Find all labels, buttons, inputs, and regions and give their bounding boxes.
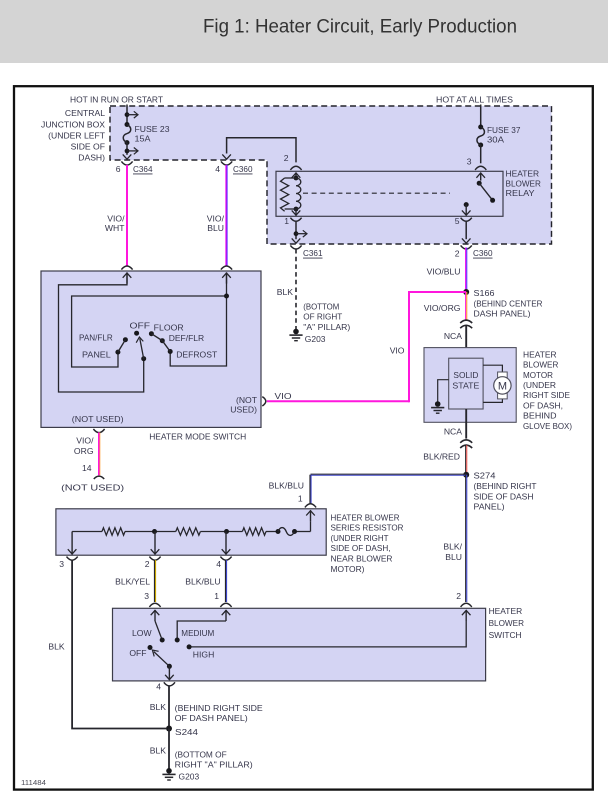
resistor element 2 xyxy=(176,528,201,535)
thermal limiter xyxy=(276,529,281,534)
svg-text:FUSE 37: FUSE 37 xyxy=(487,125,521,135)
svg-text:RIGHT "A" PILLAR): RIGHT "A" PILLAR) xyxy=(175,760,253,770)
svg-text:PANEL): PANEL) xyxy=(474,502,505,512)
svg-text:(BOTTOM: (BOTTOM xyxy=(303,302,339,312)
connector at relay pin 3 xyxy=(475,166,486,170)
wire below fuse 23 xyxy=(126,143,128,155)
ground G203 (right A pillar) xyxy=(293,329,299,335)
svg-text:(UNDER LEFT: (UNDER LEFT xyxy=(48,130,106,140)
relay switch arm xyxy=(479,183,492,200)
svg-text:14: 14 xyxy=(82,463,92,473)
contact MEDIUM xyxy=(175,638,180,643)
blower pin 4 exit arrow xyxy=(168,666,170,680)
svg-text:MEDIUM: MEDIUM xyxy=(181,628,214,638)
blower pin 3 entry arrow to LOW xyxy=(154,610,156,621)
svg-text:HOT AT ALL TIMES: HOT AT ALL TIMES xyxy=(436,95,513,105)
wire BLK/YEL resistor pin 2 to blower pin 3 xyxy=(153,560,155,602)
svg-text:HEATER MODE SWITCH: HEATER MODE SWITCH xyxy=(149,432,246,442)
ground inside motor box xyxy=(438,380,449,402)
wire relay pin1 to C361 xyxy=(295,222,297,240)
splice S274 xyxy=(463,472,469,478)
relay switch common dot pin 3 xyxy=(477,181,482,186)
svg-text:ORG: ORG xyxy=(74,446,94,456)
svg-text:(NOT USED): (NOT USED) xyxy=(72,414,124,424)
relay coil (resistor + inductor in parallel) xyxy=(294,176,299,181)
svg-text:S244: S244 xyxy=(175,727,198,737)
svg-text:HEATER: HEATER xyxy=(489,606,523,616)
blower switch pole arm (points at OFF) xyxy=(167,664,172,669)
relay box (HEATER BLOWER RELAY U1) xyxy=(276,171,503,216)
svg-text:111484: 111484 xyxy=(21,778,46,787)
relay actuation dashed link xyxy=(303,192,450,194)
wire hot-in-run feed into junction box xyxy=(126,105,128,125)
svg-text:C360: C360 xyxy=(473,248,493,258)
wire dashed BLK from C361 to G203 xyxy=(295,249,297,329)
svg-text:VIO: VIO xyxy=(390,345,405,355)
svg-text:SOLID: SOLID xyxy=(453,370,478,380)
svg-text:NCA: NCA xyxy=(444,426,462,436)
header bar xyxy=(0,0,608,63)
svg-text:2: 2 xyxy=(145,559,150,569)
node junction dot with branch arrow (top of fuse 23 feed) xyxy=(125,112,130,117)
wire VIO/ORG stub pin 14 xyxy=(98,432,100,475)
connector at blower pin 3 xyxy=(149,603,160,607)
exit arrow at connector C361 xyxy=(292,238,301,243)
svg-text:HIGH: HIGH xyxy=(193,649,215,659)
heater blower series resistor box R1 xyxy=(56,509,326,555)
svg-text:CENTRAL: CENTRAL xyxy=(65,108,105,118)
svg-text:BLU: BLU xyxy=(445,552,462,562)
wire BLK/BLU from S274 to resistor pin 1 xyxy=(311,473,467,475)
node bus junction dot xyxy=(224,294,229,299)
wire hot-at-all-times feed to fuse 37 xyxy=(480,105,482,128)
svg-text:3: 3 xyxy=(144,591,149,601)
svg-text:VIO/: VIO/ xyxy=(207,214,225,224)
svg-text:BLU: BLU xyxy=(207,223,224,233)
connector at mode switch pin 14 (not used) xyxy=(93,429,104,433)
svg-text:DEFROST: DEFROST xyxy=(176,349,218,359)
svg-text:OF DASH PANEL): OF DASH PANEL) xyxy=(175,713,248,723)
relay switch output contact xyxy=(464,202,469,207)
connector at relay pin 1 xyxy=(290,218,301,222)
connector at blower pin 2 xyxy=(461,603,472,607)
connector at resistor pin 2 xyxy=(149,557,160,561)
wire VIO/BLU from C360 pin4 to heater mode switch xyxy=(225,165,227,266)
svg-text:VIO/BLU: VIO/BLU xyxy=(427,266,461,276)
svg-text:BLK: BLK xyxy=(150,702,167,712)
svg-text:BLK/RED: BLK/RED xyxy=(423,451,460,461)
svg-text:4: 4 xyxy=(156,681,161,691)
svg-text:NCA: NCA xyxy=(444,331,462,341)
wire BLK/RED to splice S274 xyxy=(465,445,467,475)
svg-text:BLK/BLU: BLK/BLU xyxy=(185,577,220,587)
svg-text:NEAR BLOWER: NEAR BLOWER xyxy=(331,554,393,564)
node junction dot xyxy=(224,529,229,534)
connector at relay pin 5 xyxy=(461,218,472,222)
svg-text:RIGHT SIDE: RIGHT SIDE xyxy=(523,390,570,400)
svg-text:30A: 30A xyxy=(487,135,504,145)
wire relay pin5 to C360 pin 2 xyxy=(465,222,467,240)
heater blower motor box M1 xyxy=(424,348,516,423)
inline connector NCA lower xyxy=(460,440,472,443)
wire fuse 37 to relay pin 3 xyxy=(480,145,482,163)
svg-text:BLK/: BLK/ xyxy=(443,541,462,551)
svg-text:BLK: BLK xyxy=(48,641,65,651)
connector at resistor pin 3 xyxy=(67,557,78,561)
mode switch contact bus (inner rectangle) xyxy=(72,296,227,367)
svg-text:HEATER: HEATER xyxy=(523,349,557,359)
svg-text:G203: G203 xyxy=(305,334,326,344)
svg-text:1: 1 xyxy=(298,494,303,504)
svg-text:HOT IN RUN OR START: HOT IN RUN OR START xyxy=(70,94,164,104)
svg-text:MOTOR): MOTOR) xyxy=(331,564,365,574)
exit arrow at connector C364 pin 6 xyxy=(123,154,132,159)
solid state controller box xyxy=(449,358,483,409)
svg-text:4: 4 xyxy=(215,164,220,174)
motor M symbol xyxy=(498,372,508,378)
mode switch left entry arrow and pole feed wire xyxy=(126,273,128,284)
fuse F37 (FUSE 37 30A) xyxy=(478,125,483,130)
resistor element 1 xyxy=(102,528,125,535)
svg-text:BLK: BLK xyxy=(150,746,167,756)
resistor pin 3 exit arrow xyxy=(71,532,73,555)
svg-text:BLOWER: BLOWER xyxy=(506,178,541,188)
resistor element 3 xyxy=(242,528,266,535)
svg-text:PAN/FLR: PAN/FLR xyxy=(79,333,113,343)
svg-text:BLOWER: BLOWER xyxy=(489,618,524,628)
svg-text:SIDE OF DASH: SIDE OF DASH xyxy=(474,491,534,501)
svg-text:SIDE OF DASH,: SIDE OF DASH, xyxy=(331,543,391,553)
central junction box / relay dashed box xyxy=(110,106,552,244)
heater mode switch box SW1 xyxy=(41,271,261,427)
wire VIO/ORG horizontal into S166 xyxy=(408,291,466,293)
svg-text:(BOTTOM OF: (BOTTOM OF xyxy=(175,749,227,759)
blower pin 1 entry arrow to MEDIUM xyxy=(225,610,227,621)
svg-text:S274: S274 xyxy=(474,470,496,480)
svg-text:PANEL: PANEL xyxy=(82,349,111,359)
svg-text:C364: C364 xyxy=(133,164,153,174)
svg-text:(BEHIND CENTER: (BEHIND CENTER xyxy=(474,298,543,308)
contact OFF xyxy=(148,645,153,650)
svg-text:STATE: STATE xyxy=(452,380,479,390)
svg-text:OFF: OFF xyxy=(129,648,146,658)
svg-text:C360: C360 xyxy=(233,164,253,174)
exit arrow at connector C360 pin 2 xyxy=(462,238,471,243)
connector at mode switch right pin xyxy=(221,266,232,270)
relay pin 3 entry arrow xyxy=(480,173,482,181)
contact HIGH xyxy=(187,644,192,649)
svg-text:BLK/BLU: BLK/BLU xyxy=(269,481,304,491)
mode switch pole arm (points at OFF) xyxy=(141,356,146,361)
svg-text:VIO: VIO xyxy=(275,391,292,401)
connector C360 pin 4 xyxy=(221,161,232,165)
connector C360 pin 2 xyxy=(461,245,472,249)
svg-text:2: 2 xyxy=(455,249,460,259)
node junction dot xyxy=(152,529,157,534)
svg-text:15A: 15A xyxy=(135,134,151,144)
connector C364 pin 6 xyxy=(121,161,132,165)
connector at mode switch VIO output xyxy=(262,397,266,406)
wire solid state output down xyxy=(465,409,467,439)
wire NCA to blower motor xyxy=(465,325,467,358)
wire VIO/ORG from S166 down to connector xyxy=(465,292,467,321)
svg-text:(BEHIND RIGHT: (BEHIND RIGHT xyxy=(474,481,538,491)
splice S166 xyxy=(463,289,469,295)
svg-text:G203: G203 xyxy=(179,772,200,782)
contact LOW xyxy=(160,638,165,643)
svg-text:DASH): DASH) xyxy=(78,153,105,163)
wire VIO/WHT from C364 to heater mode switch xyxy=(126,165,128,266)
svg-text:2: 2 xyxy=(284,153,289,163)
wire VIO from mode switch to splice S166 xyxy=(267,400,409,402)
svg-text:WHT: WHT xyxy=(105,223,125,233)
svg-text:RELAY: RELAY xyxy=(506,188,535,198)
wire BLK blower pin 4 to S244 xyxy=(168,686,170,728)
wire BLK S244 to G203 xyxy=(168,729,170,770)
svg-text:(BEHIND RIGHT SIDE: (BEHIND RIGHT SIDE xyxy=(175,703,263,713)
svg-text:SERIES RESISTOR: SERIES RESISTOR xyxy=(331,523,404,533)
svg-text:3: 3 xyxy=(59,559,64,569)
svg-text:(NOT USED): (NOT USED) xyxy=(61,483,124,493)
node junction dot with branch arrow (relay ground branch) xyxy=(294,231,299,236)
svg-text:MOTOR: MOTOR xyxy=(523,370,553,380)
svg-text:SIDE OF: SIDE OF xyxy=(71,142,105,152)
svg-text:VIO/ORG: VIO/ORG xyxy=(424,303,461,313)
svg-text:3: 3 xyxy=(467,157,472,167)
relay pin 5 exit arrow xyxy=(465,205,467,216)
contact PANEL to PAN/FLR link xyxy=(115,350,120,355)
exit arrow at connector C360 pin 4 xyxy=(222,154,231,159)
svg-text:OFF: OFF xyxy=(130,320,151,330)
svg-text:S166: S166 xyxy=(474,288,495,298)
svg-text:(UNDER RIGHT: (UNDER RIGHT xyxy=(331,533,390,543)
resistor pin 2 exit arrow xyxy=(154,532,156,555)
connector at resistor pin 4 xyxy=(220,557,231,561)
fuse F23 (FUSE 23 15A) xyxy=(125,122,130,127)
connector C361 xyxy=(290,245,301,249)
svg-text:Fig 1: Heater Circuit, Early P: Fig 1: Heater Circuit, Early Production xyxy=(203,16,517,37)
svg-text:BLOWER: BLOWER xyxy=(523,360,558,370)
contact chain FLOOR - DEF/FLR - DEFROST xyxy=(149,331,154,336)
svg-text:HEATER: HEATER xyxy=(506,169,540,179)
svg-text:DEF/FLR: DEF/FLR xyxy=(169,333,205,343)
wire BLK from resistor pin 3 to splice S244 xyxy=(72,560,166,729)
wire BLK/BLU resistor pin 4 to blower pin 1 xyxy=(224,560,226,602)
svg-text:"A" PILLAR): "A" PILLAR) xyxy=(303,322,350,332)
svg-text:VIO/: VIO/ xyxy=(107,214,125,224)
svg-text:BEHIND: BEHIND xyxy=(523,411,557,421)
connector at resistor pin 1 xyxy=(305,504,316,508)
connector at blower pin 1 xyxy=(220,603,231,607)
svg-text:LOW: LOW xyxy=(132,628,152,638)
connector at mode switch left pin xyxy=(121,266,132,270)
svg-text:DASH PANEL): DASH PANEL) xyxy=(474,309,531,319)
wire branch to relay coil via C360 pin 4 xyxy=(227,138,296,163)
wire solid state to motor bottom xyxy=(483,399,502,403)
mode switch right entry arrow xyxy=(226,273,228,284)
svg-text:HEATER BLOWER: HEATER BLOWER xyxy=(331,512,400,522)
svg-text:FLOOR: FLOOR xyxy=(154,323,184,333)
svg-text:JUNCTION BOX: JUNCTION BOX xyxy=(41,119,105,129)
blower pin 2 entry arrow to HIGH xyxy=(465,610,467,621)
svg-text:1: 1 xyxy=(284,216,289,226)
wire BLK/BLU from S274 to blower switch pin 2 xyxy=(465,475,467,602)
ground G203 (bottom of right A pillar) xyxy=(166,768,172,774)
connector dead end pin 14 xyxy=(94,476,104,479)
resistor pin 4 exit arrow xyxy=(225,532,227,555)
svg-text:BLK: BLK xyxy=(277,287,294,297)
svg-text:5: 5 xyxy=(455,216,460,226)
svg-text:FUSE 23: FUSE 23 xyxy=(135,124,170,134)
svg-text:(UNDER: (UNDER xyxy=(523,380,556,390)
svg-text:2: 2 xyxy=(456,591,461,601)
svg-text:OF RIGHT: OF RIGHT xyxy=(303,312,343,322)
svg-text:BLK/YEL: BLK/YEL xyxy=(115,577,150,587)
relay pin 1 exit arrow xyxy=(295,209,297,216)
splice S244 xyxy=(166,726,172,732)
inline connector NCA upper xyxy=(460,320,472,323)
connector at blower pin 4 xyxy=(164,682,175,686)
wire solid state to motor top xyxy=(483,365,502,372)
resistor pin 1 entry arrow xyxy=(310,510,312,521)
svg-text:4: 4 xyxy=(216,559,221,569)
svg-text:C361: C361 xyxy=(303,248,323,258)
svg-text:USED): USED) xyxy=(230,405,257,415)
svg-text:SWITCH: SWITCH xyxy=(489,630,522,640)
resistor bus wire xyxy=(72,531,102,533)
heater blower switch box SW2 xyxy=(113,608,486,681)
wire VIO/BLU from C360 pin2 to splice S166 xyxy=(465,248,467,293)
svg-text:GLOVE BOX): GLOVE BOX) xyxy=(523,421,572,431)
svg-text:VIO/: VIO/ xyxy=(76,436,94,446)
svg-text:1: 1 xyxy=(214,591,219,601)
svg-text:M: M xyxy=(498,380,507,392)
svg-text:OF DASH,: OF DASH, xyxy=(523,400,563,410)
svg-text:(NOT: (NOT xyxy=(236,395,258,405)
node junction dot with branch arrow (below fuse 23) xyxy=(125,149,130,154)
svg-text:6: 6 xyxy=(116,164,121,174)
